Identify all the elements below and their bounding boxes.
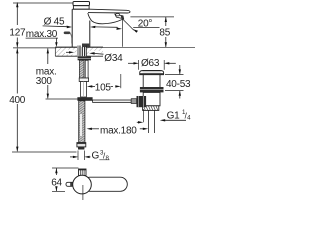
G3/8 dimension [70,151,91,161]
label G1 1/4 with leader [167,109,192,121]
svg-text:20°: 20° [138,19,153,30]
dimension 127 vertical line [13,2,73,48]
svg-text:G: G [92,151,100,162]
mounting nut below deck [78,57,91,61]
plain hose section [81,82,87,98]
svg-text:127: 127 [9,27,26,38]
bottom view: dimension 64 [52,168,78,191]
svg-text:8: 8 [106,155,110,162]
rod coupling [131,99,136,104]
drain lower body [143,92,160,110]
braided flex hose [79,101,85,143]
svg-text:64: 64 [51,178,62,189]
drain inlet compression nut [137,96,147,107]
dimension 400 [12,48,77,152]
drain body through basin [143,75,160,87]
svg-text:40-53: 40-53 [166,79,191,90]
faucet collar [73,6,89,10]
drain Ø63 label and arrows [128,60,176,70]
faucet body outline [72,9,90,47]
deck hatched cross-section [55,47,103,56]
drain lock nut [140,87,164,92]
label Ø45 with underline leader [43,17,72,29]
junction block [79,78,88,82]
svg-text:85: 85 [159,28,170,39]
max.180 upper right arrow with ext line [137,109,144,124]
G3/8 stub end [78,147,84,150]
label max.180 with leader arrows [87,126,149,137]
aerator at spout tip [115,14,124,19]
threaded shank through deck [77,44,89,57]
deck top line extending right [103,46,195,48]
bottom view: spout pill shape [83,177,127,191]
bottom view: G3/8 threaded stub on top [79,169,87,176]
faucet cap knob [73,2,90,6]
drain flange [140,71,164,75]
horizontal pop-up rod to drain [93,100,132,102]
svg-text:4: 4 [187,115,191,122]
svg-text:400: 400 [9,95,26,106]
svg-text:Ø63: Ø63 [141,58,160,69]
label G3/8 [92,149,110,161]
Ø45 right arrow + 20° arc line [90,26,138,33]
lever handle on body left [64,32,72,44]
label max.30 with underline and down arrow [26,29,58,47]
20° vertical ray [122,20,124,47]
dimension 85 [130,17,174,47]
drain tailpipe below [149,110,155,133]
svg-text:max.180: max.180 [100,126,137,137]
svg-text:Ø34: Ø34 [104,53,123,64]
bottom view: lever stub left [66,182,74,186]
dimension 40-53 [165,65,184,99]
Ø34 arrows and label [65,50,104,56]
svg-text:300: 300 [36,76,53,87]
bottom view: centerline below circle [82,185,84,200]
spout outline with tip [72,9,130,24]
dimension max.300 [46,48,79,99]
svg-text:105: 105 [95,82,112,93]
bottom view: body circle [73,175,92,194]
supply tube and pop-up rod tubes [79,60,88,78]
T-fitting at hose [77,97,92,101]
dimension 105 [87,74,121,88]
hose end nut [77,143,86,147]
20° diagonal ray [123,19,134,30]
